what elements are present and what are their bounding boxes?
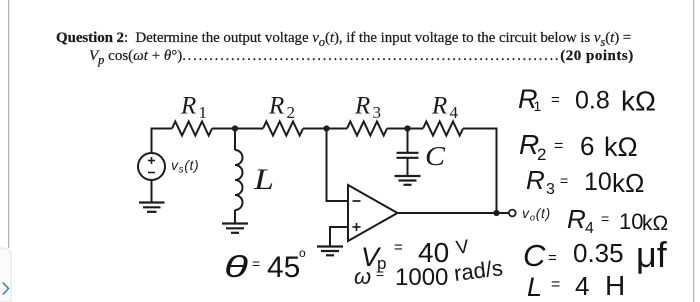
handwritten R3 = 10kOhm xyxy=(526,165,644,198)
svg-text:kΩ: kΩ xyxy=(642,212,668,235)
svg-text:kΩ: kΩ xyxy=(604,132,638,162)
label vs(t) xyxy=(171,157,199,176)
inductor L xyxy=(235,150,243,210)
svg-text:4: 4 xyxy=(450,103,459,122)
svg-text:R: R xyxy=(567,204,586,234)
svg-text:C: C xyxy=(425,141,446,171)
svg-text:0.35: 0.35 xyxy=(573,238,624,268)
ground (capacitor) xyxy=(395,176,421,185)
left page border line xyxy=(8,0,10,248)
label R2 xyxy=(268,93,295,123)
resistor R4 xyxy=(423,122,463,136)
svg-text:μf: μf xyxy=(636,234,668,275)
ground (op-amp +) xyxy=(317,247,343,256)
svg-text:=: = xyxy=(394,239,403,256)
svg-text:L: L xyxy=(527,272,542,302)
svg-text:10: 10 xyxy=(619,209,643,234)
svg-text:vo(t): vo(t) xyxy=(522,205,551,224)
svg-text:vs(t): vs(t) xyxy=(171,157,199,176)
svg-text:4: 4 xyxy=(575,271,589,301)
handwritten Vp = 40 V xyxy=(361,236,471,273)
wire: R3 to R4 through node C xyxy=(387,128,423,130)
svg-text:R: R xyxy=(180,93,196,120)
svg-text:45: 45 xyxy=(267,251,300,284)
wire: op-amp noninverting input to ground xyxy=(330,227,348,246)
resistor R1 xyxy=(172,122,212,136)
svg-text:o: o xyxy=(299,246,306,260)
wire: inductor to ground xyxy=(234,210,236,223)
svg-text:1: 1 xyxy=(534,98,542,114)
wire: R1 to R2 through node A xyxy=(212,128,263,130)
handwritten R4 = 10kOhm xyxy=(567,204,668,237)
resistor R2 xyxy=(263,122,303,136)
svg-text:2: 2 xyxy=(537,145,546,164)
svg-text:R: R xyxy=(354,93,370,120)
wire: source top to R1 xyxy=(152,129,173,153)
wire: capacitor to ground xyxy=(407,158,409,175)
node C junction dot xyxy=(404,125,410,131)
svg-text:ω: ω xyxy=(354,264,371,289)
handwritten R1 = 0.8 kOhm xyxy=(518,84,656,117)
op-amp U1 xyxy=(348,185,398,241)
svg-text:=: = xyxy=(560,173,568,189)
label vo(t) xyxy=(522,205,551,224)
svg-text:L: L xyxy=(253,163,274,196)
node A junction dot xyxy=(232,125,238,131)
ground (source) xyxy=(139,203,165,212)
resistor R3 xyxy=(347,122,387,136)
node D output junction dot xyxy=(493,210,499,216)
capacitor C xyxy=(397,153,419,158)
svg-text:2: 2 xyxy=(287,103,296,122)
svg-text:kΩ: kΩ xyxy=(621,86,656,117)
label L xyxy=(253,163,274,196)
wire: node B down to op-amp inverting input xyxy=(327,129,349,202)
handwritten L = 4 H xyxy=(527,270,625,302)
svg-text:=: = xyxy=(551,92,560,109)
svg-text:0.8: 0.8 xyxy=(575,87,610,115)
svg-text:=: = xyxy=(551,276,560,293)
handwritten C = 0.35 uF xyxy=(523,234,668,275)
wire: R2 to R3 through node B xyxy=(303,128,347,130)
svg-text:kΩ: kΩ xyxy=(612,168,644,198)
svg-text:4: 4 xyxy=(585,220,594,237)
svg-text:R: R xyxy=(268,93,284,120)
right page border line xyxy=(693,0,695,302)
svg-text:3: 3 xyxy=(373,103,382,122)
voltage source vs(t) xyxy=(138,153,165,180)
node B junction dot xyxy=(323,125,329,131)
handwritten theta = 45 deg xyxy=(224,246,306,284)
output terminal circle xyxy=(509,210,516,217)
label R4 xyxy=(431,93,459,123)
label R1 xyxy=(180,93,207,123)
svg-text:θ: θ xyxy=(224,249,248,284)
svg-text:1: 1 xyxy=(199,103,208,122)
handwritten omega = 1000 rad/s xyxy=(354,255,504,291)
svg-text:=: = xyxy=(554,138,563,155)
wire: node C down to capacitor xyxy=(407,129,409,153)
svg-text:R: R xyxy=(526,165,545,195)
label C xyxy=(425,141,446,171)
wire: source bottom xyxy=(151,180,153,202)
wire: op-amp output to terminal xyxy=(398,212,509,214)
svg-text:1000: 1000 xyxy=(395,264,448,291)
ground (inductor) xyxy=(222,224,248,233)
wire: node A down to inductor xyxy=(234,129,236,151)
svg-text:6: 6 xyxy=(580,131,594,161)
svg-text:C: C xyxy=(523,238,546,273)
svg-text:10: 10 xyxy=(584,168,612,196)
svg-text:=: = xyxy=(548,250,557,267)
svg-text:=: = xyxy=(601,211,609,227)
svg-text:3: 3 xyxy=(546,181,555,198)
svg-text:rad/s: rad/s xyxy=(453,255,505,286)
label R3 xyxy=(354,93,381,123)
handwritten R2 = 6 kOhm xyxy=(519,129,638,164)
sidebar toggle panel xyxy=(0,248,11,302)
svg-text:R: R xyxy=(431,93,447,120)
wire: R4 right end down feedback xyxy=(463,129,497,214)
question text line 1 xyxy=(56,30,631,50)
question text line 2 xyxy=(89,48,634,68)
svg-text:V: V xyxy=(455,236,471,259)
svg-text:=: = xyxy=(252,256,260,272)
svg-text:H: H xyxy=(605,270,625,301)
svg-text:=: = xyxy=(376,266,384,282)
